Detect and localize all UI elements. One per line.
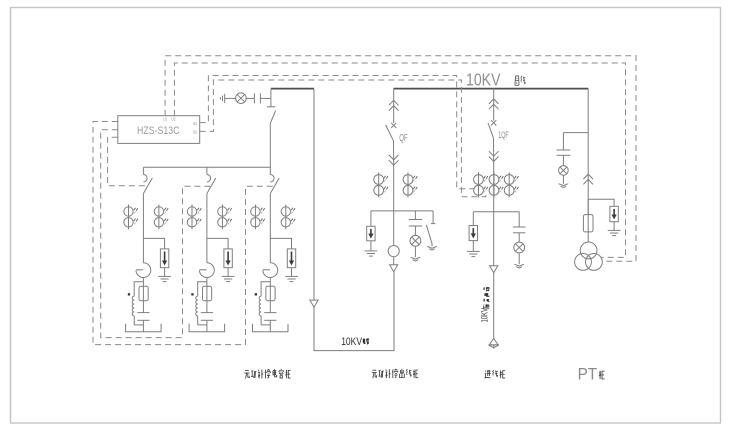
arrow (QF outgoing direction)	[390, 265, 398, 272]
capacitor C1 (bank)	[137, 312, 149, 314]
wire QF through CT zone	[393, 165, 395, 211]
control wire K1 to branch 1 contactor (dashed)	[108, 137, 147, 186]
wire branch 3 arrester tap	[270, 238, 291, 249]
CT pair QF right	[403, 172, 417, 197]
voltage transformer TV (three windings)	[575, 242, 603, 270]
fuse FU (PT)	[583, 215, 593, 232]
wire capacitor to frame branch 1	[134, 320, 143, 331]
wire lamp to capacitor	[246, 97, 254, 99]
lamp (QF voltage indicator)	[410, 226, 421, 246]
svg-text:U2: U2	[172, 117, 176, 122]
wire branch 3 to CT zone	[269, 193, 271, 262]
surge arrester (QF cabinet)	[367, 226, 375, 241]
frame bracket branch 3	[253, 324, 289, 332]
control wire U2 to PT (dashed)	[174, 63, 625, 257]
capacitor C (series)	[253, 93, 255, 103]
surge arrester F1	[160, 249, 168, 268]
CT pair incoming right	[504, 172, 518, 197]
fuse FU1	[139, 286, 148, 300]
wire PT drop from bus	[587, 89, 589, 215]
wire branch 2 to CT zone	[206, 193, 208, 262]
capacitor divider (QF voltage indicator)	[409, 211, 422, 226]
CT pair incoming centre	[489, 172, 503, 197]
wire stub drop to indicator line	[270, 89, 272, 99]
wire arrester drop (incoming)	[472, 212, 474, 226]
surge arrester F2	[224, 249, 232, 268]
drawout contact lower (1QF)	[489, 151, 499, 161]
wire bus stub (capacitor feed)	[271, 88, 314, 90]
wire branch 2 below coil	[206, 278, 208, 287]
wire capacitor to frame branch 2	[198, 320, 207, 331]
wire branch 3 drop from feeder bus	[269, 167, 271, 174]
wire joint to arrow	[393, 257, 395, 265]
wire 1QF drop from bus	[493, 89, 495, 121]
svg-text:10KV: 10KV	[466, 70, 501, 90]
contactor KM3 (hook and blade)	[270, 175, 279, 194]
wire QF drop from bus	[393, 89, 395, 124]
svg-text:10KV: 10KV	[480, 308, 490, 323]
svg-text:PT: PT	[578, 366, 598, 384]
CT pair branch 1 right	[154, 205, 168, 230]
discharge coil arc branch 1	[136, 263, 151, 278]
capacitor divider (incoming indicator)	[513, 212, 525, 233]
svg-text:HZS-S13C: HZS-S13C	[137, 125, 180, 137]
contactor KM2 (hook and blade)	[207, 175, 216, 194]
ground (earthing switch)	[427, 244, 437, 251]
wire 10KV cable loop	[314, 272, 394, 351]
surge arrester F3	[287, 249, 295, 268]
discharge coil arc branch 3	[263, 263, 278, 278]
wire branch 3 below coil	[269, 278, 271, 287]
control wire S1 to incoming CT (dashed)	[200, 76, 474, 189]
wire QF main down	[393, 211, 395, 246]
capacitor C3 (bank)	[264, 312, 276, 314]
lamp HL (blown-fuse indicator)	[236, 93, 247, 104]
ground (QF indicator)	[411, 246, 421, 261]
control wire K2 to branch 2 contactor (dashed)	[101, 130, 211, 338]
wire branch 2 arrester tap	[207, 238, 228, 249]
wire PT arrester tap	[588, 199, 614, 206]
CT pair branch 3 right	[281, 205, 295, 230]
label capacitor cabinet 无功补偿电容柜	[244, 369, 290, 379]
lamp (incoming indicator)	[514, 233, 525, 253]
CT pair branch 2 left	[187, 205, 201, 230]
svg-text:U1: U1	[163, 117, 167, 122]
wire incoming main down	[493, 212, 495, 266]
wire fuse to capacitor branch 1	[142, 301, 144, 313]
svg-text:10KV: 10KV	[341, 336, 363, 348]
label PT cabinet PT柜	[578, 366, 605, 384]
label 10KV cable	[341, 336, 369, 348]
wire capacitor feeder bus	[143, 166, 270, 168]
svg-text:S2: S2	[193, 130, 197, 135]
ground (PT indicator)	[559, 175, 569, 187]
frame bracket branch 2	[189, 324, 225, 332]
wire lamp line	[225, 97, 236, 99]
reactor L1 (parallel path with coil)	[128, 282, 144, 325]
contactor KM1 (hook and blade)	[143, 175, 152, 194]
wire branch 1 to CT zone	[142, 193, 144, 262]
drawout contact lower (QF)	[389, 155, 399, 165]
fuse FU3	[266, 286, 275, 300]
wire incoming cable	[493, 273, 495, 339]
wire switch to feeder bus	[269, 123, 271, 167]
reactor L3 (parallel path with coil)	[255, 282, 271, 325]
reactor L2 (parallel path with coil)	[191, 282, 207, 325]
label 10KV incoming cable (vertical)	[480, 308, 490, 323]
capacitor divider (PT indicator)	[557, 133, 589, 156]
ground (arrester branch 1)	[158, 268, 171, 282]
wire branch 1 arrester tap	[143, 238, 164, 249]
arrow (cable direction)	[310, 300, 318, 307]
wire arrester drop (QF)	[370, 211, 372, 226]
ground (arrester branch 2)	[222, 268, 235, 282]
wire fuse to capacitor branch 3	[269, 301, 271, 313]
bus 10KV busbar	[393, 88, 588, 90]
CT pair QF left	[374, 172, 388, 197]
fuse FU2	[203, 286, 212, 300]
ground (incoming arrester)	[467, 241, 480, 257]
svg-text:S1: S1	[193, 121, 197, 126]
label outgoing cabinet 无功补偿出线柜	[372, 369, 419, 378]
wire QF to lower contact	[393, 141, 395, 166]
disconnector QS (capacitor feed switch)	[267, 98, 276, 123]
wire outgoing riser	[313, 89, 315, 301]
wire branch 1 below coil	[142, 278, 144, 287]
wire incoming splitter	[473, 211, 519, 213]
control wire U1 to PT (dashed)	[165, 56, 636, 261]
drawout contact upper (1QF)	[489, 99, 499, 109]
CT pair incoming left	[474, 172, 488, 197]
breaker 1QF (x contact and blade)	[488, 120, 496, 138]
controller U1 HZS-S13C box	[118, 116, 200, 144]
earthing switch (QF cabinet)	[426, 211, 435, 244]
breaker QF (x contact and blade)	[386, 123, 397, 141]
wire fuse to PT	[587, 232, 589, 242]
CT pair branch 1 left	[124, 205, 138, 230]
arrow (incoming direction)	[490, 266, 498, 273]
earth (left mini earth, rotated)	[224, 94, 226, 103]
wire branch 1 drop from feeder bus	[142, 167, 144, 174]
frame bracket branch 1	[126, 324, 162, 332]
wire QF splitter	[371, 210, 433, 212]
drawout contact upper (QF)	[389, 100, 399, 110]
wire fuse to capacitor branch 2	[206, 301, 208, 313]
wire PT to fuse	[587, 199, 589, 214]
CT pair branch 3 left	[251, 205, 265, 230]
cable head (incoming)	[488, 338, 499, 348]
discharge coil arc branch 2	[200, 263, 215, 278]
surge arrester (PT cabinet)	[610, 206, 618, 221]
wire branch 2 drop from feeder bus	[206, 167, 208, 174]
lamp (PT indicator)	[559, 155, 569, 175]
wire 1QF to lower contact	[493, 138, 495, 161]
ground (incoming indicator)	[514, 253, 524, 268]
svg-text:1QF: 1QF	[498, 129, 509, 140]
wire capacitor to frame branch 3	[261, 320, 270, 331]
ground (QF arrester)	[365, 241, 378, 256]
svg-text:QF: QF	[399, 133, 408, 144]
capacitor C2 (bank)	[201, 312, 213, 314]
wire capacitor to switch column	[260, 97, 271, 99]
wire 1QF through CT zone	[493, 162, 495, 212]
label 10KV 母线	[466, 70, 526, 90]
ground (PT arrester)	[608, 222, 621, 236]
surge arrester (incoming cabinet)	[469, 226, 477, 241]
CT pair branch 2 right	[218, 205, 232, 230]
cable joint circle (QF outgoing)	[388, 246, 399, 257]
drawout contact (PT)	[583, 174, 593, 184]
control wire K3 to branch 3 contactor (dashed)	[93, 122, 274, 345]
ground (arrester branch 3)	[285, 268, 298, 282]
control wire S2 to incoming CT (dashed)	[200, 80, 486, 197]
label incoming cabinet 进线柜	[485, 370, 505, 378]
